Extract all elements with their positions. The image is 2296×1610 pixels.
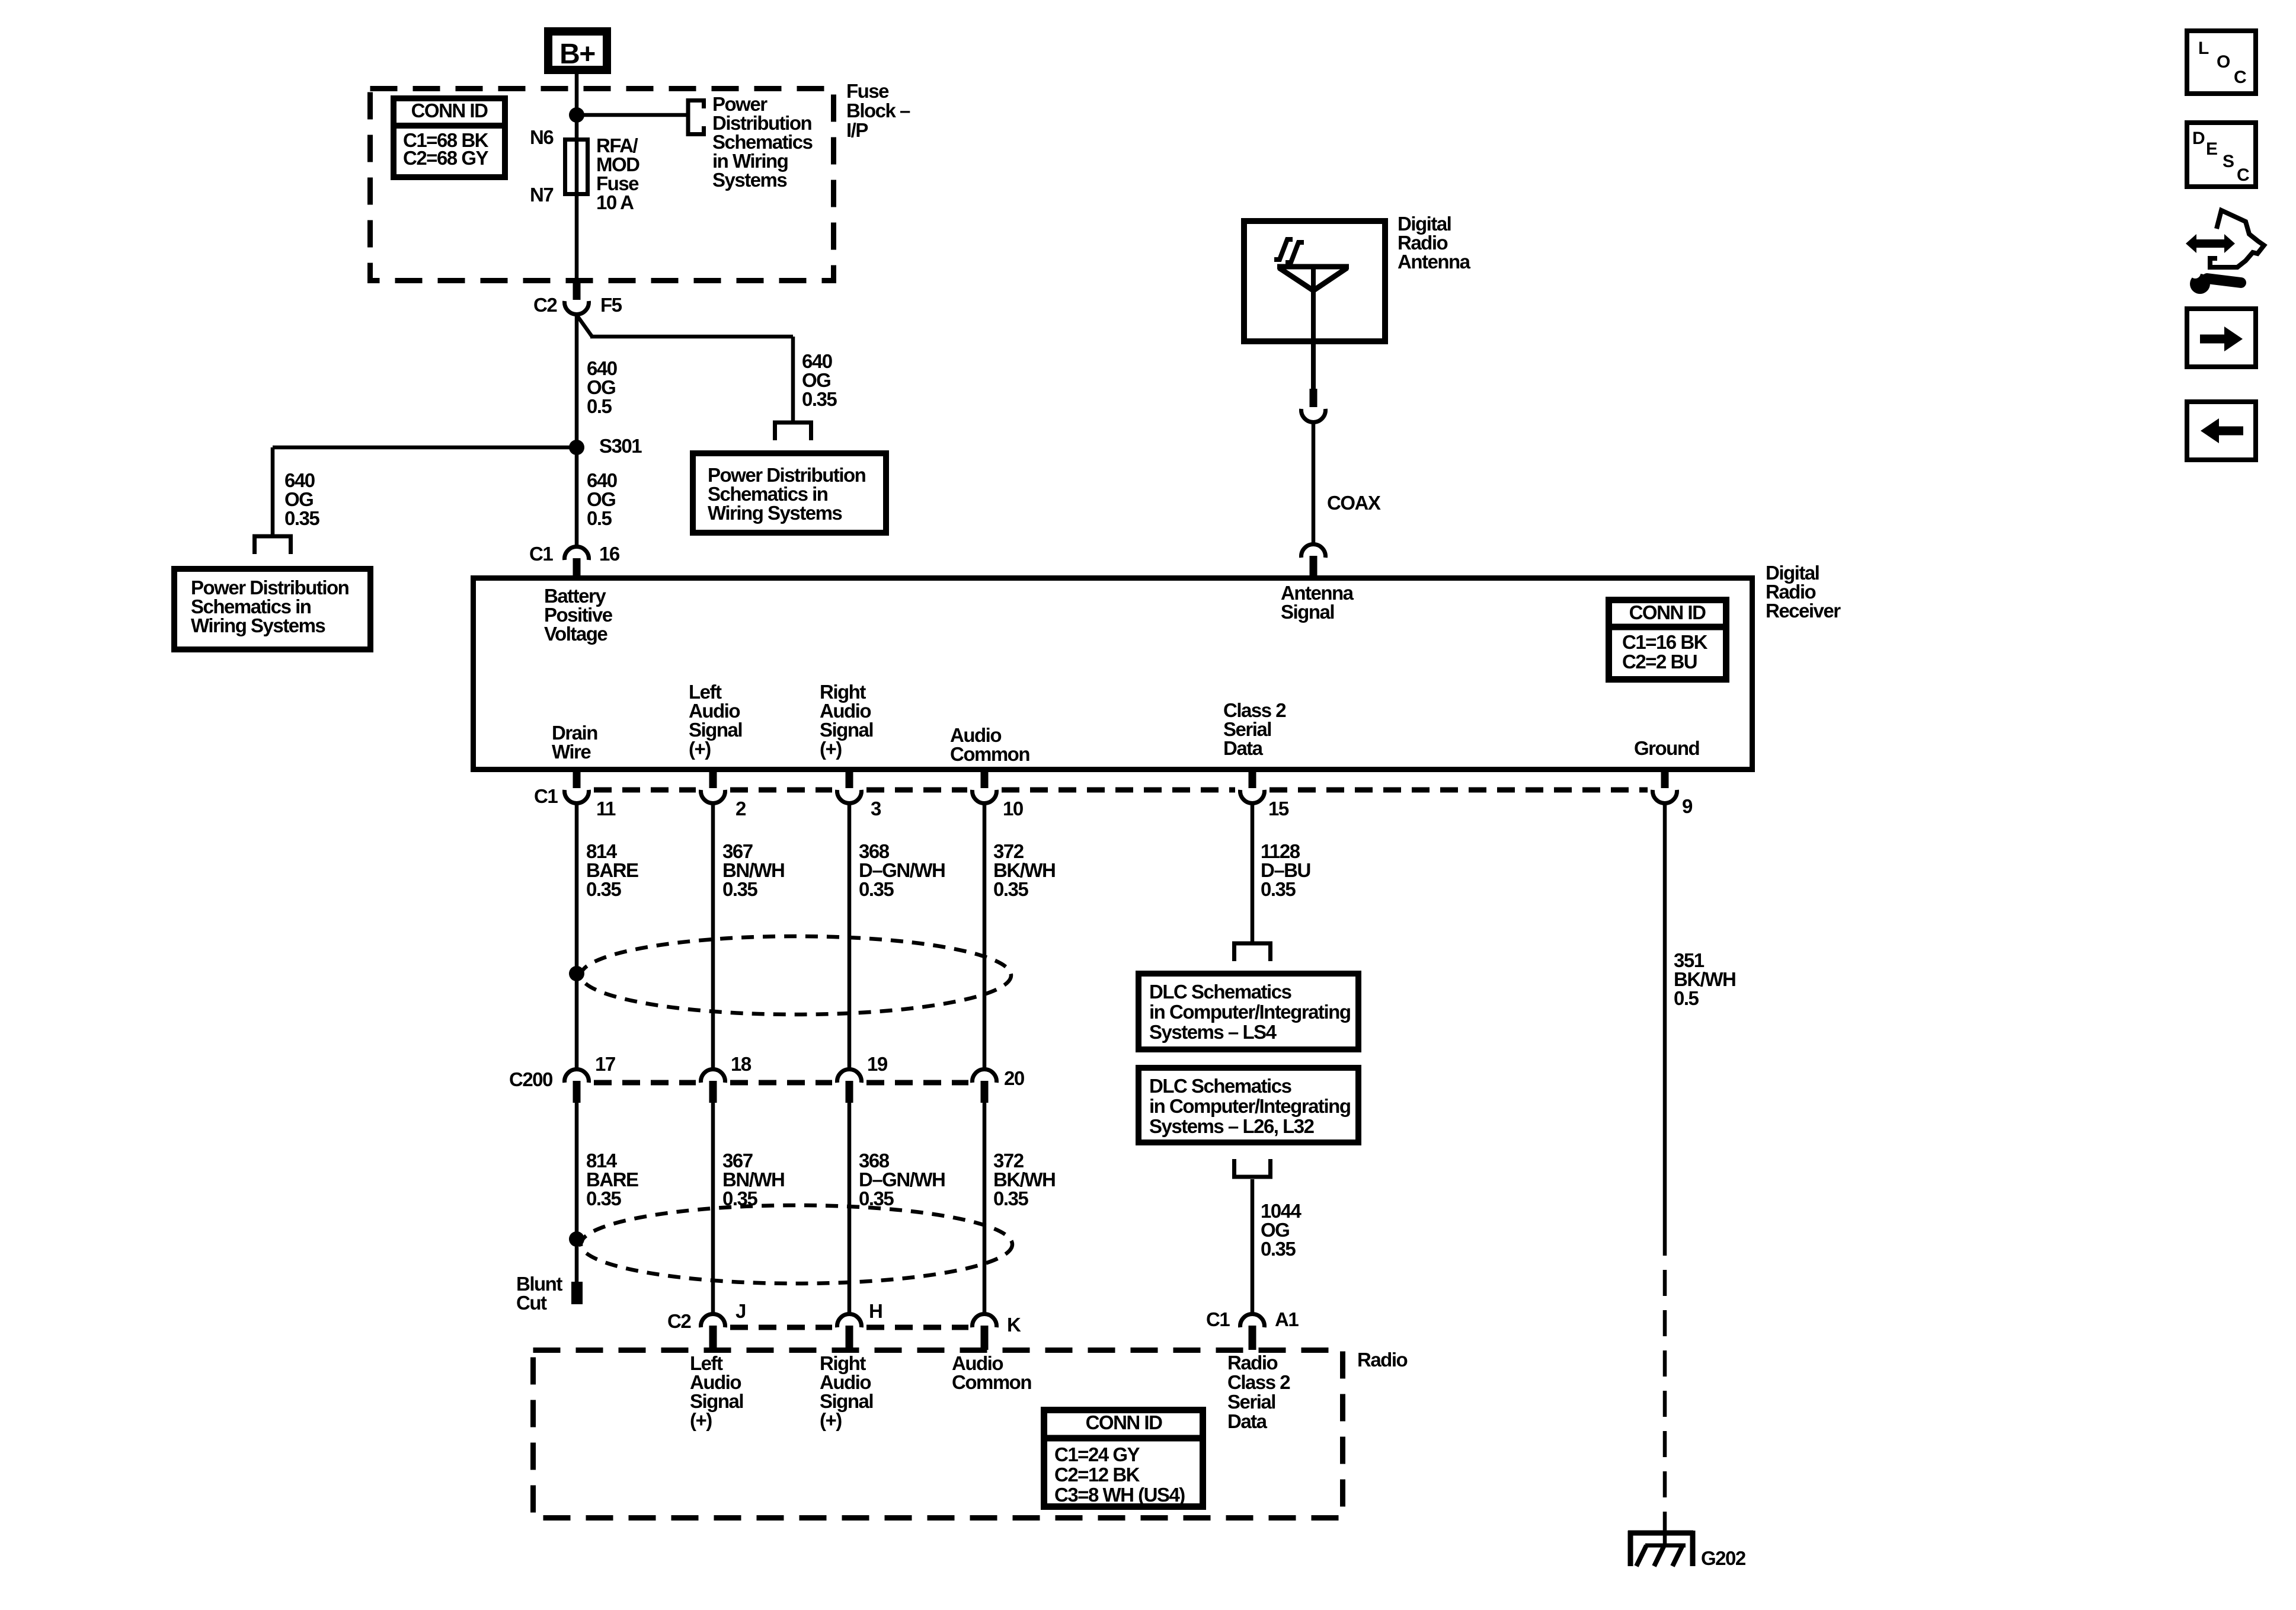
svg-text:Systems – LS4: Systems – LS4 <box>1149 1021 1277 1043</box>
svg-text:A1: A1 <box>1275 1308 1299 1330</box>
svg-text:CONN ID: CONN ID <box>411 100 488 121</box>
svg-text:Common: Common <box>952 1371 1031 1393</box>
svg-text:17: 17 <box>595 1053 615 1075</box>
svg-text:Antenna: Antenna <box>1398 251 1471 273</box>
svg-text:C2=68 GY: C2=68 GY <box>403 147 488 169</box>
svg-text:16: 16 <box>599 543 620 565</box>
svg-text:(+): (+) <box>690 1409 712 1431</box>
svg-text:10 A: 10 A <box>596 191 634 213</box>
svg-text:Wiring Systems: Wiring Systems <box>191 614 325 636</box>
svg-text:10: 10 <box>1003 798 1023 820</box>
svg-text:0.35: 0.35 <box>993 1188 1028 1209</box>
svg-text:DLC Schematics: DLC Schematics <box>1149 1075 1291 1097</box>
svg-text:C2=2 BU: C2=2 BU <box>1622 651 1697 673</box>
svg-text:C3=8 WH (US4): C3=8 WH (US4) <box>1054 1484 1185 1506</box>
svg-text:COAX: COAX <box>1327 492 1381 514</box>
svg-text:15: 15 <box>1268 798 1289 820</box>
svg-text:C2: C2 <box>667 1310 691 1332</box>
svg-text:Systems: Systems <box>712 169 786 191</box>
svg-text:L: L <box>2198 39 2209 58</box>
svg-text:Class 2: Class 2 <box>1227 1371 1290 1393</box>
svg-text:0.35: 0.35 <box>859 878 894 900</box>
svg-text:0.35: 0.35 <box>284 507 319 529</box>
svg-text:S: S <box>2223 152 2234 171</box>
svg-text:B+: B+ <box>559 39 595 70</box>
svg-text:DLC Schematics: DLC Schematics <box>1149 981 1291 1003</box>
svg-text:C2: C2 <box>533 294 557 316</box>
svg-text:C1=24 GY: C1=24 GY <box>1054 1443 1140 1465</box>
svg-text:D: D <box>2192 129 2205 148</box>
svg-text:C1: C1 <box>534 785 558 807</box>
svg-text:C1: C1 <box>529 543 553 565</box>
svg-text:N6: N6 <box>530 126 554 148</box>
svg-text:CONN ID: CONN ID <box>1086 1411 1163 1433</box>
svg-text:0.5: 0.5 <box>1674 987 1699 1009</box>
svg-text:Radio: Radio <box>1227 1352 1278 1374</box>
svg-text:Cut: Cut <box>516 1292 547 1314</box>
svg-text:Data: Data <box>1223 737 1264 759</box>
svg-text:C1: C1 <box>1206 1308 1230 1330</box>
svg-text:I/P: I/P <box>846 119 868 141</box>
svg-text:F5: F5 <box>600 294 622 316</box>
svg-text:K: K <box>1007 1314 1021 1336</box>
svg-text:C200: C200 <box>509 1068 552 1090</box>
svg-text:19: 19 <box>867 1053 888 1075</box>
svg-text:Serial: Serial <box>1227 1391 1275 1413</box>
svg-text:3: 3 <box>871 798 881 820</box>
svg-text:Data: Data <box>1227 1410 1268 1432</box>
svg-text:Wiring Systems: Wiring Systems <box>708 502 842 524</box>
svg-text:Ground: Ground <box>1634 737 1699 759</box>
svg-text:0.5: 0.5 <box>587 395 612 417</box>
svg-text:S301: S301 <box>599 435 642 457</box>
svg-text:in Computer/Integrating: in Computer/Integrating <box>1149 1001 1351 1023</box>
svg-text:Radio: Radio <box>1357 1349 1408 1371</box>
svg-text:Voltage: Voltage <box>544 623 607 645</box>
svg-text:0.35: 0.35 <box>1261 1238 1296 1260</box>
svg-text:0.35: 0.35 <box>722 878 757 900</box>
svg-text:0.35: 0.35 <box>586 878 621 900</box>
svg-text:Wire: Wire <box>552 741 591 763</box>
svg-text:Fuse: Fuse <box>846 80 889 102</box>
svg-text:C: C <box>2234 68 2246 87</box>
svg-text:Signal: Signal <box>1281 601 1334 623</box>
svg-text:2: 2 <box>736 798 746 820</box>
svg-text:0.35: 0.35 <box>1261 878 1296 900</box>
svg-text:in Computer/Integrating: in Computer/Integrating <box>1149 1095 1351 1117</box>
svg-text:CONN ID: CONN ID <box>1629 601 1706 623</box>
svg-text:20: 20 <box>1004 1067 1024 1089</box>
svg-text:C1=16 BK: C1=16 BK <box>1622 631 1708 653</box>
svg-text:Common: Common <box>950 743 1029 765</box>
svg-text:O: O <box>2217 52 2230 72</box>
svg-text:0.35: 0.35 <box>993 878 1028 900</box>
svg-text:C2=12 BK: C2=12 BK <box>1054 1464 1140 1486</box>
svg-text:0.5: 0.5 <box>587 507 612 529</box>
svg-text:9: 9 <box>1682 795 1693 817</box>
svg-text:C: C <box>2237 165 2249 185</box>
svg-text:(+): (+) <box>689 738 711 760</box>
svg-text:11: 11 <box>596 798 616 820</box>
svg-text:N7: N7 <box>530 184 553 206</box>
svg-text:G202: G202 <box>1701 1547 1746 1569</box>
svg-text:(+): (+) <box>820 1409 842 1431</box>
svg-text:(+): (+) <box>820 738 842 760</box>
svg-text:Block –: Block – <box>846 100 910 121</box>
svg-text:E: E <box>2206 139 2217 159</box>
svg-text:0.35: 0.35 <box>802 388 837 410</box>
svg-text:H: H <box>869 1300 882 1322</box>
svg-text:0.35: 0.35 <box>586 1188 621 1209</box>
svg-text:Systems – L26, L32: Systems – L26, L32 <box>1149 1115 1315 1137</box>
svg-text:Receiver: Receiver <box>1766 600 1841 622</box>
svg-text:18: 18 <box>731 1053 752 1075</box>
svg-text:J: J <box>736 1300 746 1322</box>
